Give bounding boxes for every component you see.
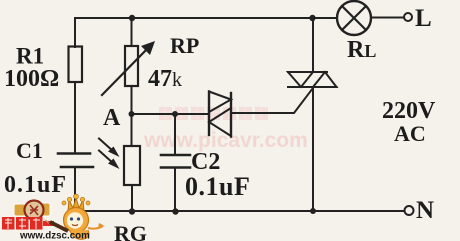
svg-text:L: L (415, 5, 432, 32)
svg-text:0.1uF: 0.1uF (4, 172, 67, 198)
svg-text:47k: 47k (148, 66, 182, 92)
svg-text:100Ω: 100Ω (4, 66, 59, 92)
svg-text:R1: R1 (16, 44, 44, 69)
svg-text:RL: RL (347, 37, 376, 63)
svg-text:C1: C1 (16, 138, 43, 163)
svg-text:www.dzsc.com: www.dzsc.com (19, 231, 90, 241)
svg-text:A: A (103, 105, 121, 131)
svg-text:RP: RP (170, 33, 199, 58)
svg-text:RG: RG (114, 221, 147, 241)
svg-text:N: N (416, 197, 434, 224)
svg-text:AC: AC (394, 121, 426, 146)
svg-text:0.1uF: 0.1uF (185, 172, 250, 201)
